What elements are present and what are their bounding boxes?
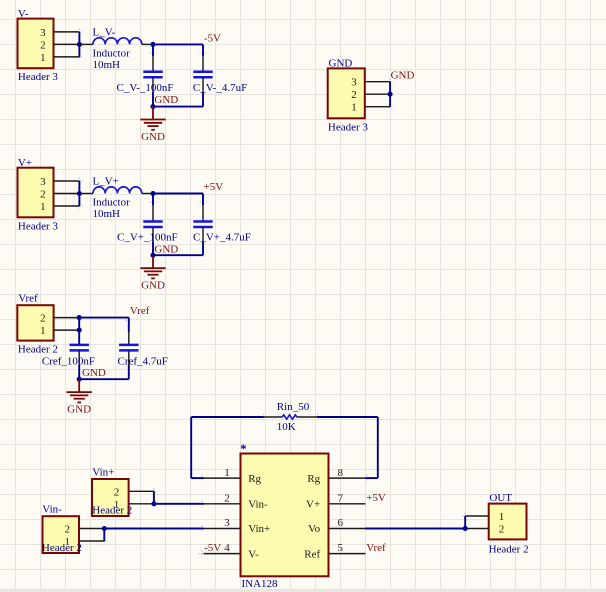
pin 2 of Vin- header [79,528,104,530]
junction at V- header pin 2 [77,42,82,47]
junction at Vin- header pin 2 [102,526,107,531]
svg-text:3: 3 [224,517,230,529]
pin 1 of Vref header [54,329,80,331]
connector designator Vref (Header 2) [17,305,53,340]
svg-text:Ref: Ref [304,548,320,560]
junction at OUT header pin 2 [463,526,468,531]
junction at Vin+ header pin 1 [151,501,156,506]
svg-text:3: 3 [40,27,46,39]
pin 4 V- (left) [204,542,260,560]
connector designator GND (Header 3) [328,68,365,118]
svg-text:1: 1 [224,467,230,479]
svg-text:GND: GND [141,131,165,143]
connector V- (Header 3) [18,19,54,69]
pin 1 Rg (left) [204,467,262,485]
svg-text:V+: V+ [306,499,320,511]
capacitor C_V+_100nF [117,194,178,244]
svg-text:Header 3: Header 3 [18,71,59,83]
ground power port GND (Vref block) [67,379,92,402]
svg-text:Header 3: Header 3 [18,220,59,232]
junction at Vref ground rail [77,377,82,382]
svg-text:INA128: INA128 [242,578,279,590]
svg-text:Rin_50: Rin_50 [277,401,310,413]
inductor L_V+ 10mH [79,176,153,220]
junction node after L_V- [150,42,155,47]
pin 1 of V- header [54,56,80,58]
svg-text:*: * [240,442,246,456]
wire joining V+ header pins [78,181,80,206]
svg-text:C_V-_100nF: C_V-_100nF [117,82,174,94]
svg-text:1: 1 [65,536,71,548]
pin 7 V+ (right) [306,493,365,511]
ground power port GND (V+ block) [140,255,165,278]
wire joining Vin+ header pins [153,491,155,504]
wire from Rg pin1 up to resistor [191,417,203,478]
svg-text:2: 2 [351,89,357,101]
svg-text:V-: V- [248,548,259,560]
wire joining Vin- header pins [103,529,105,542]
pin 2 of Vref header [54,317,80,319]
pin 2 of OUT header [465,528,489,530]
svg-text:Inductor: Inductor [93,197,131,209]
wire down to C_V+_4.7uF [202,194,204,222]
pin 1 of V+ header [54,205,80,207]
svg-text:V+: V+ [18,157,32,169]
junction at V+ header pin 2 [77,191,82,196]
wire down to C_V-_4.7uF [202,44,204,71]
pin 3 of V+ header [54,180,80,182]
svg-text:7: 7 [338,493,344,505]
pin 1 of OUT header [465,515,489,517]
wire down through Vref pin1 to Cref_100nF [78,318,80,345]
junction node after L_V+ [150,191,155,196]
svg-text:1: 1 [114,499,120,511]
svg-text:V-: V- [18,8,29,20]
pin 3 Vin+ (left) [204,517,271,535]
svg-text:+5V: +5V [204,181,224,193]
capacitor Cref_100nF [42,345,95,367]
wire down to Cref_4.7uF [128,318,130,345]
svg-text:Header 2: Header 2 [489,544,529,556]
capacitor C_V+_4.7uF [193,222,251,244]
svg-text:10mH: 10mH [93,59,121,71]
svg-text:Rg: Rg [307,473,320,485]
pin 2 Vin- (left) [204,493,269,511]
junction at V+ ground rail [150,253,155,258]
svg-text:2: 2 [224,493,230,505]
svg-text:Rg: Rg [248,473,261,485]
svg-text:1: 1 [40,201,46,213]
svg-text:10mH: 10mH [93,208,121,220]
svg-text:OUT: OUT [489,492,512,504]
wire joining OUT header pins [464,516,466,529]
svg-text:5: 5 [338,542,344,554]
wire INA128 Vo to OUT header [366,528,466,530]
wire bottom rail of V- filter [153,92,203,107]
svg-text:2: 2 [65,523,71,535]
capacitor C_V-_100nF [117,44,174,94]
svg-text:3: 3 [40,176,46,188]
svg-text:2: 2 [114,486,120,498]
svg-text:Cref_4.7uF: Cref_4.7uF [118,355,168,367]
wire to +5V net [153,193,203,195]
wire joining GND header pins [389,82,391,107]
pin 3 of V- header [54,31,80,33]
svg-text:GND: GND [154,94,178,106]
wire Vin+ header to INA128 pin 2 [154,503,204,505]
svg-text:3: 3 [351,77,357,89]
svg-text:2: 2 [40,39,46,51]
pin hotspot markers [76,28,469,557]
svg-text:L_V+: L_V+ [93,176,119,188]
ground power port GND (V- block) [140,107,165,130]
junction at Vref pin 2 [77,315,82,320]
svg-text:Vin-: Vin- [248,499,268,511]
wire bottom rail of Vref filter [79,365,129,379]
svg-text:-5V: -5V [204,542,221,554]
connector designator V+ (Header 3) [18,168,54,218]
pin 3 of GND header [365,81,390,83]
svg-text:10K: 10K [277,421,296,433]
wire from resistor down to Rg pin8 [366,417,378,478]
svg-text:1: 1 [351,102,357,114]
pin 2 of V- header [54,43,80,45]
svg-text:GND: GND [67,404,91,416]
svg-text:Header 2: Header 2 [42,542,82,554]
sheet bottom edge strip [0,589,606,592]
svg-text:Vin-: Vin- [42,503,62,515]
svg-text:L_V-: L_V- [93,27,116,39]
svg-text:1: 1 [40,52,46,64]
svg-text:8: 8 [338,467,344,479]
resistor Rin_50 10K [191,401,378,433]
svg-text:Vref: Vref [18,292,38,304]
junction at Vref pin 1 [77,328,82,333]
svg-text:C_V+_100nF: C_V+_100nF [117,231,178,243]
pin 1 of Vin+ header [129,503,154,505]
svg-text:-5V: -5V [204,33,221,45]
svg-text:Vo: Vo [308,523,321,535]
wire bottom rail of V+ filter [153,242,203,256]
svg-text:GND: GND [154,243,178,255]
svg-text:GND: GND [329,57,353,69]
pin 2 of V+ header [54,193,80,195]
pin 1 of Vin- header [79,540,104,542]
svg-text:Vref: Vref [366,542,386,554]
svg-text:Header 3: Header 3 [328,121,369,133]
pin 1 of GND header [365,106,390,108]
svg-text:2: 2 [499,524,505,536]
pin 5 Ref (right) [304,542,365,560]
connector designator Vin+ (Header 2) [92,479,129,516]
pin 8 Rg (right) [307,467,365,485]
svg-text:GND: GND [141,280,165,292]
wire Vin- header to INA128 pin 3 [104,528,203,530]
connector designator Vin- (Header 2) [43,516,80,553]
svg-text:1: 1 [499,511,505,523]
svg-text:GND: GND [391,69,415,81]
inductor L_V- 10mH [79,27,153,71]
wire from Vref pin2 to Vref net corner [79,317,129,319]
junction at GND header pin 2 [388,92,393,97]
svg-text:C_V+_4.7uF: C_V+_4.7uF [193,231,251,243]
capacitor Cref_4.7uF [118,345,168,367]
svg-text:Vref: Vref [130,305,150,317]
svg-text:1: 1 [40,325,46,337]
svg-text:Header 2: Header 2 [92,505,132,517]
pin 6 Vo (right) [308,517,365,535]
pin 2 of GND header [365,93,390,95]
svg-text:GND: GND [82,367,106,379]
wire joining V- header pins [78,32,80,57]
svg-text:+5V: +5V [366,492,386,504]
svg-text:6: 6 [338,517,344,529]
svg-text:Vin+: Vin+ [92,466,114,478]
svg-text:Inductor: Inductor [93,47,131,59]
svg-text:2: 2 [40,189,46,201]
svg-text:Vin+: Vin+ [248,523,270,535]
svg-text:C_V-_4.7uF: C_V-_4.7uF [193,82,247,94]
svg-text:Cref_100nF: Cref_100nF [42,355,95,367]
connector designator OUT (Header 2) [489,504,527,540]
pin 2 of Vin+ header [129,490,154,492]
svg-text:2: 2 [40,313,46,325]
svg-text:4: 4 [224,542,230,554]
wire to -5V net [153,43,203,45]
svg-text:Header 2: Header 2 [18,343,58,355]
junction at V- ground rail [150,104,155,109]
op-amp INA128 (designator *) [241,454,329,577]
capacitor C_V-_4.7uF [193,72,247,95]
